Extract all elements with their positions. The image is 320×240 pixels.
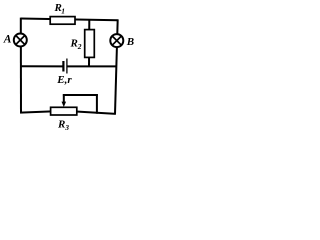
battery E,r long plate <box>66 59 68 74</box>
resistor R1 <box>50 17 75 25</box>
wiper wire horizontal <box>63 94 98 96</box>
wire bottom right segment <box>76 112 116 114</box>
wire middle right <box>67 65 117 67</box>
wire right side <box>115 19 118 114</box>
wire middle left <box>21 65 63 67</box>
svg-text:E,r: E,r <box>56 74 72 86</box>
wiper arrowhead <box>62 102 67 107</box>
rheostat R3 <box>51 107 77 115</box>
lamp A <box>14 34 27 47</box>
svg-text:3: 3 <box>64 123 69 130</box>
svg-text:A: A <box>3 34 12 46</box>
wire left side <box>20 18 22 114</box>
svg-text:1: 1 <box>61 7 65 16</box>
svg-text:R: R <box>57 119 65 130</box>
resistor R2 <box>85 30 95 58</box>
wire R2 branch <box>88 20 90 66</box>
wiper arrow shaft <box>63 94 65 103</box>
wire bottom left segment <box>20 111 52 112</box>
svg-text:2: 2 <box>77 42 82 51</box>
lamp B <box>110 34 123 47</box>
svg-text:R: R <box>70 38 78 50</box>
wiper wire vertical <box>96 94 98 114</box>
wire top side <box>21 19 118 21</box>
svg-text:B: B <box>126 36 134 48</box>
battery E,r short plate <box>62 61 64 72</box>
